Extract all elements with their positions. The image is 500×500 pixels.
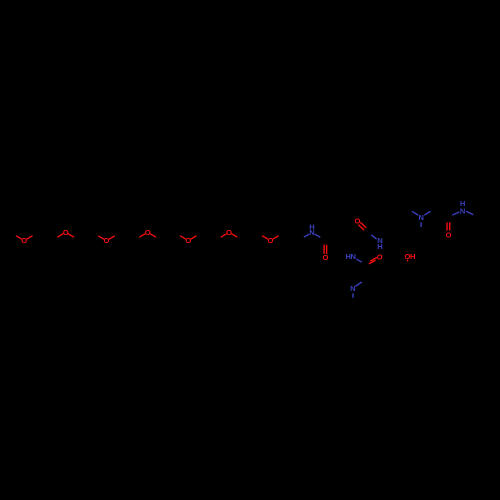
svg-text:O: O <box>446 230 452 239</box>
svg-text:O: O <box>63 228 69 237</box>
svg-text:N: N <box>309 228 314 237</box>
svg-text:N: N <box>351 252 356 261</box>
svg-text:H: H <box>377 242 382 251</box>
svg-text:O: O <box>21 236 27 245</box>
svg-text:O: O <box>145 228 151 237</box>
svg-text:O: O <box>355 216 361 225</box>
svg-text:N: N <box>460 206 465 215</box>
svg-text:OH: OH <box>405 252 416 261</box>
svg-text:N: N <box>418 213 423 222</box>
svg-text:O: O <box>185 236 191 245</box>
svg-text:N: N <box>350 284 355 293</box>
svg-text:O: O <box>322 253 328 262</box>
svg-text:O: O <box>267 236 273 245</box>
svg-text:O: O <box>377 252 383 261</box>
svg-text:O: O <box>226 228 232 237</box>
svg-text:O: O <box>104 236 110 245</box>
